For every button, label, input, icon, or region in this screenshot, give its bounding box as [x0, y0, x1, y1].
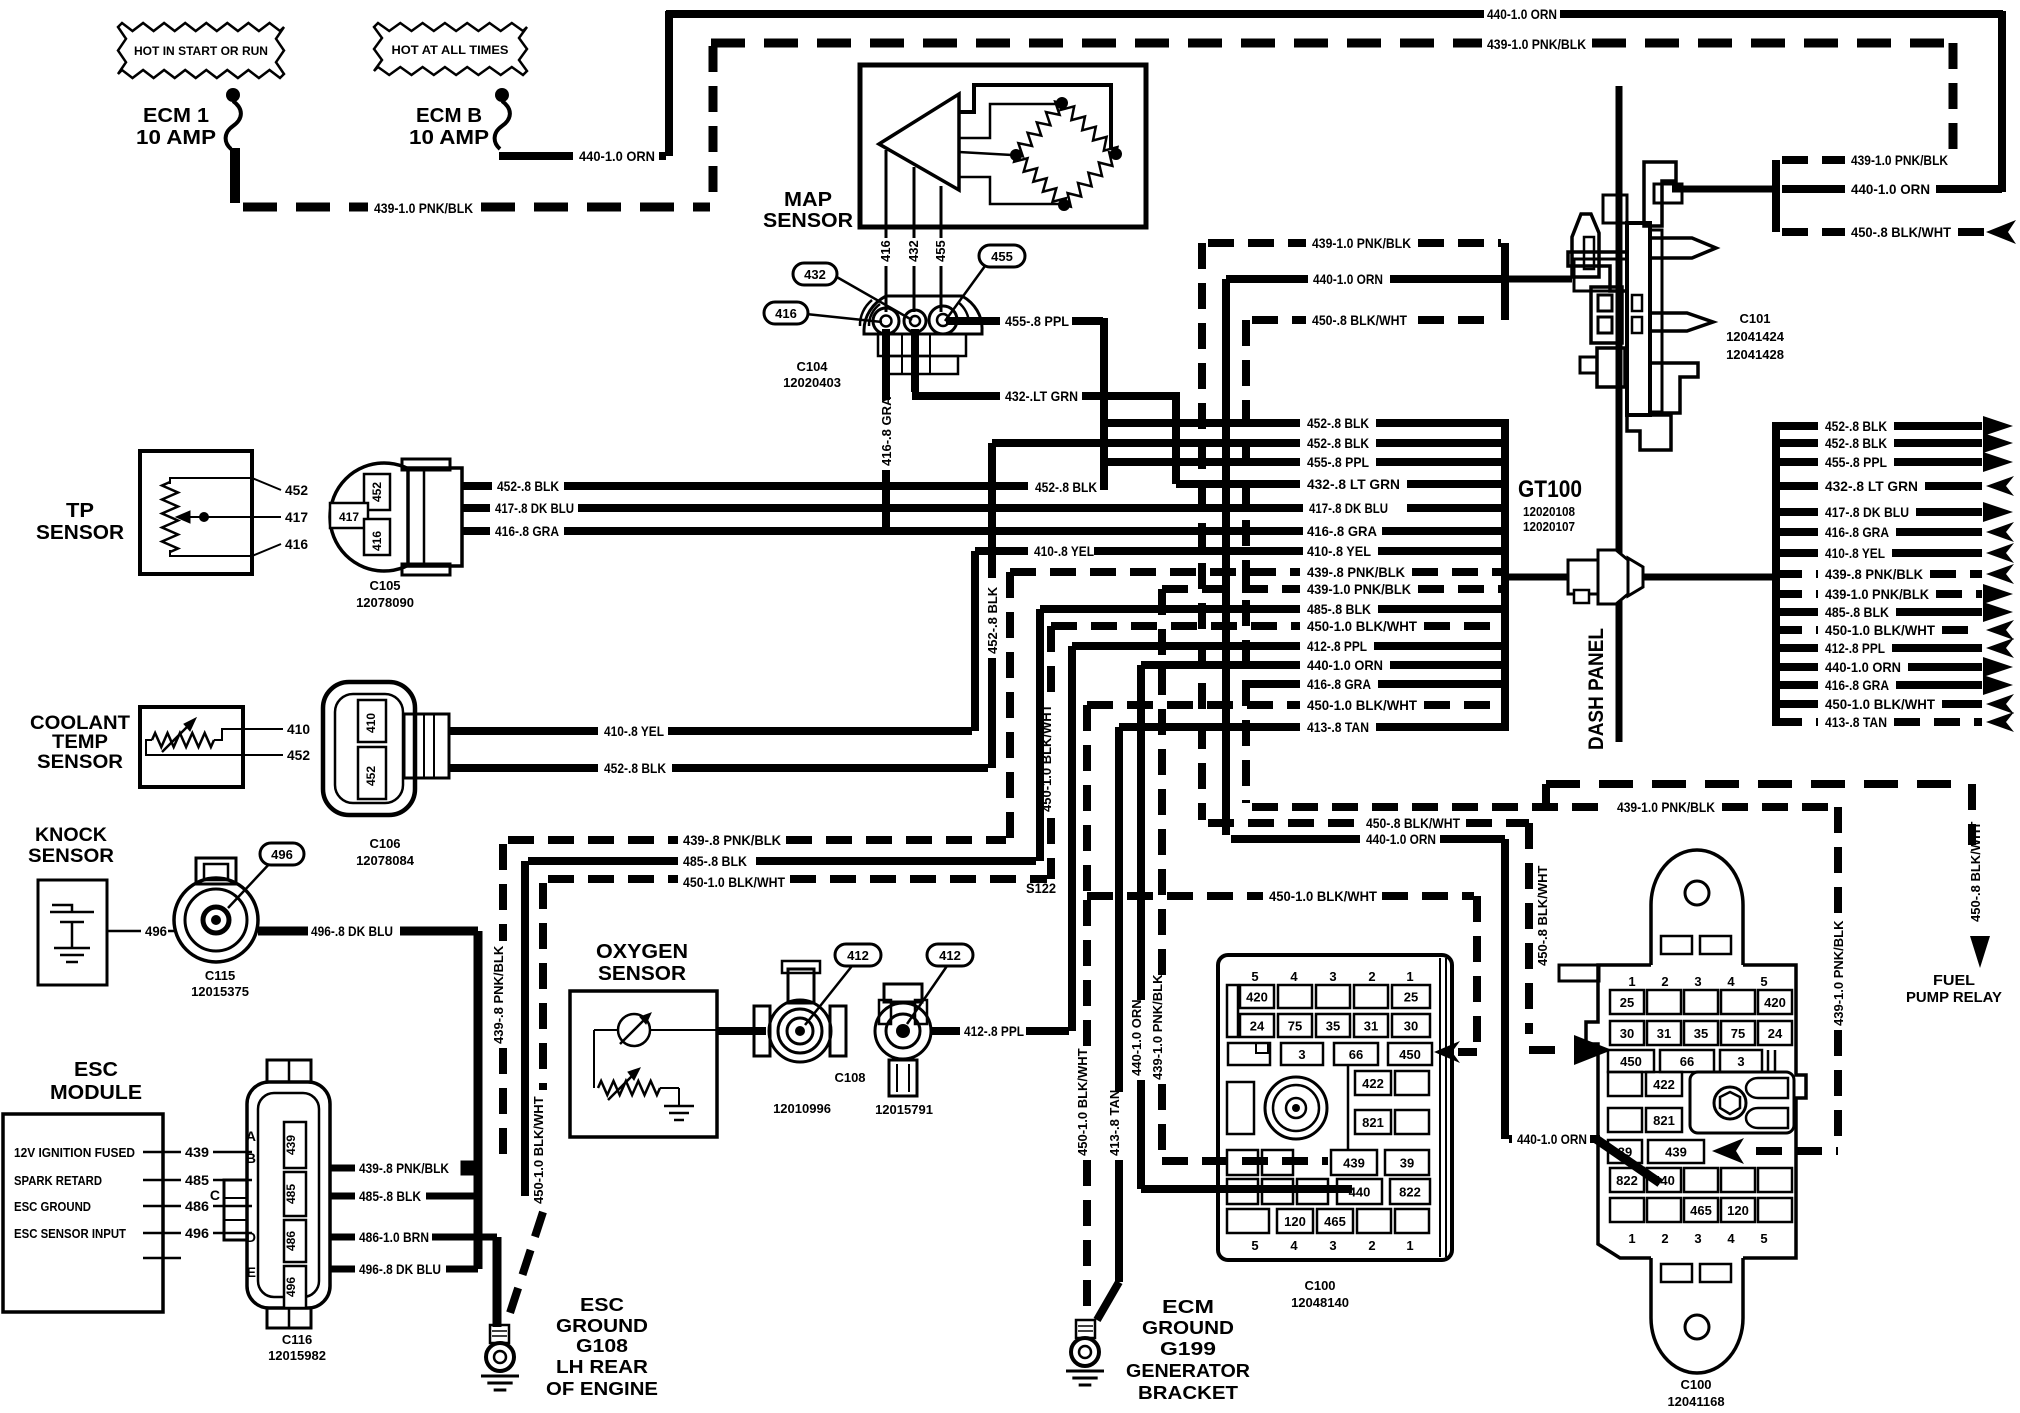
label 12041428	[1726, 347, 1784, 362]
wire 450-.8 drop to right fuse box (dashed)	[1529, 823, 1565, 1050]
svg-text:1: 1	[1628, 1231, 1635, 1246]
svg-text:1: 1	[1406, 1238, 1413, 1253]
svg-text:ESC: ESC	[74, 1059, 118, 1081]
svg-text:410: 410	[287, 721, 310, 737]
svg-text:439-.8 PNK/BLK: 439-.8 PNK/BLK	[1307, 564, 1405, 580]
svg-text:GROUND: GROUND	[556, 1316, 648, 1336]
svg-text:TEMP: TEMP	[52, 732, 108, 753]
terminal C116-485	[284, 1172, 306, 1216]
svg-text:ESC GROUND: ESC GROUND	[14, 1200, 91, 1214]
wire 439-1.0 drop to right fuse box (dashed)	[1756, 807, 1838, 1151]
label 450-.8 BLK/WHT (vertical)	[1535, 866, 1550, 966]
label C101	[1739, 311, 1770, 326]
svg-text:496: 496	[185, 1225, 209, 1241]
connector C108 body	[754, 961, 846, 1062]
svg-text:439-1.0 PNK/BLK: 439-1.0 PNK/BLK	[1851, 152, 1948, 168]
label DASH PANEL (vertical)	[1585, 628, 1608, 750]
fuse ECM B element	[495, 88, 510, 149]
wire 440-1.0 ORN top bus	[666, 10, 2003, 18]
label 455-.8 PPL	[1005, 313, 1069, 329]
node bridge bottom	[1058, 199, 1070, 211]
pin letter B	[246, 1150, 256, 1166]
label ECM B 10 AMP	[409, 105, 489, 149]
resistor bridge R4 (bottom-right)	[1064, 152, 1116, 206]
wire coolant 452 lead	[146, 740, 283, 755]
svg-text:G108: G108	[576, 1336, 628, 1356]
svg-text:452: 452	[364, 766, 378, 786]
svg-text:GENERATOR: GENERATOR	[1126, 1361, 1250, 1381]
wire right exit 416-.8 GRA y532	[1776, 522, 2014, 542]
svg-text:422: 422	[1362, 1076, 1384, 1091]
label 485-.8 BLK (ESC feed)	[683, 853, 747, 869]
svg-text:24: 24	[1768, 1026, 1783, 1041]
wire GT100 row 412-.8 PPL y646	[1072, 638, 1502, 654]
svg-text:39: 39	[1400, 1156, 1414, 1171]
svg-text:C100: C100	[1304, 1278, 1335, 1293]
fuse box F2 HOT AT ALL TIMES	[374, 23, 527, 75]
svg-text:4: 4	[1290, 969, 1298, 984]
label 12041168	[1667, 1394, 1724, 1409]
pin label 496 (knock)	[145, 923, 167, 939]
svg-text:440-1.0 ORN: 440-1.0 ORN	[1825, 659, 1901, 675]
callout oval 416 (C104)	[764, 302, 882, 324]
wire GT100 row 413-.8 TAN y727	[1119, 719, 1502, 735]
connector C116 body	[224, 1060, 330, 1328]
svg-text:450-1.0 BLK/WHT: 450-1.0 BLK/WHT	[1307, 618, 1417, 634]
label 412-.8 PPL	[964, 1023, 1024, 1039]
svg-text:SENSOR: SENSOR	[598, 963, 687, 985]
potentiometer (TP sensor)	[162, 482, 178, 552]
label 417-.8 DK BLU (near C105)	[495, 500, 574, 516]
wire 412 riser	[1068, 646, 1076, 1031]
svg-text:439-.8 PNK/BLK: 439-.8 PNK/BLK	[359, 1160, 449, 1176]
svg-text:439-.8 PNK/BLK: 439-.8 PNK/BLK	[683, 832, 781, 848]
wire 450-.8 BLK/WHT (C101 right, dashed)	[1782, 228, 1984, 236]
wire 439-.8 PNK/BLK (C116-B)	[330, 1160, 476, 1176]
wire 440-1.0 ORN run to fuse box	[1231, 835, 1505, 843]
svg-text:496: 496	[145, 923, 167, 939]
wire 485 vertical (to C116)	[521, 861, 529, 1196]
svg-text:12015375: 12015375	[191, 984, 249, 999]
svg-text:OF ENGINE: OF ENGINE	[546, 1379, 658, 1399]
svg-text:ESC SENSOR INPUT: ESC SENSOR INPUT	[14, 1227, 126, 1241]
pin C104-416	[873, 308, 899, 334]
thermistor (coolant sensor)	[152, 718, 214, 752]
svg-text:413-.8 TAN: 413-.8 TAN	[1307, 719, 1369, 735]
connector C115 body	[174, 858, 258, 962]
svg-text:413-.8 TAN: 413-.8 TAN	[1825, 714, 1887, 730]
arrow 450-.8 BLK/WHT entering	[1986, 220, 2016, 244]
fuse block C100 (12048140)	[1218, 955, 1452, 1260]
connector C109 body (12015791)	[875, 984, 931, 1096]
wire amp to bridge bottom node	[959, 177, 1060, 204]
svg-text:440-1.0 ORN: 440-1.0 ORN	[1129, 999, 1144, 1076]
svg-text:496: 496	[284, 1277, 298, 1297]
svg-text:120: 120	[1727, 1203, 1749, 1218]
svg-text:416: 416	[878, 240, 893, 262]
label 450-1.0 BLK/WHT (right)	[1269, 888, 1377, 904]
svg-text:450-1.0 BLK/WHT: 450-1.0 BLK/WHT	[1075, 1048, 1090, 1156]
terminal C105-417	[330, 503, 368, 528]
svg-text:439: 439	[1665, 1145, 1687, 1160]
svg-text:12048140: 12048140	[1291, 1295, 1349, 1310]
svg-text:12020107: 12020107	[1523, 519, 1575, 534]
wire 485-.8 BLK to ESC	[528, 857, 1036, 865]
svg-text:3: 3	[1694, 974, 1701, 989]
terminal C116-439	[284, 1122, 306, 1168]
svg-text:120: 120	[1284, 1214, 1306, 1229]
label 439-1.0 PNK/BLK (vertical right)	[1831, 920, 1846, 1026]
label TP SENSOR	[36, 500, 125, 544]
wire right exit 413-.8 TAN y722	[1776, 712, 2014, 732]
label C100 (right block)	[1680, 1377, 1711, 1392]
label ESC MODULE	[50, 1059, 142, 1104]
wire 440-1.0 ORN vertical (to left fuse box)	[1141, 665, 1352, 1189]
pin label 416 (MAP)	[878, 240, 893, 262]
svg-text:822: 822	[1616, 1173, 1638, 1188]
terminal C105-416	[364, 519, 390, 555]
wire 450-.8 riser (dashed)	[1242, 320, 1250, 803]
svg-text:416: 416	[370, 531, 384, 551]
wire 440-1.0 ORN (C101 right)	[1672, 186, 2002, 193]
svg-text:75: 75	[1731, 1026, 1745, 1041]
wire 439-1.0 riser (dashed)	[1198, 243, 1206, 820]
label 452-.8 BLK (mid)	[1035, 479, 1097, 495]
svg-text:440-1.0 ORN: 440-1.0 ORN	[1851, 181, 1930, 197]
svg-text:452: 452	[370, 482, 384, 502]
svg-text:SPARK RETARD: SPARK RETARD	[14, 1174, 102, 1188]
svg-text:SENSOR: SENSOR	[37, 752, 123, 773]
label 439-1.0 PNK/BLK (C101 right)	[1851, 152, 1948, 168]
wire 410-.8 YEL from C106	[449, 727, 972, 735]
svg-text:75: 75	[1288, 1019, 1302, 1034]
wire 440 right drop	[1998, 11, 2006, 192]
ground terminal G108	[481, 1325, 519, 1390]
svg-text:821: 821	[1653, 1113, 1675, 1128]
svg-text:420: 420	[1246, 990, 1268, 1005]
svg-text:417-.8 DK BLU: 417-.8 DK BLU	[1825, 504, 1909, 520]
wire 496 knock lead	[107, 930, 176, 933]
svg-text:A: A	[246, 1128, 256, 1144]
svg-text:821: 821	[1362, 1115, 1384, 1130]
wire GT100 row 439-.8 PNK/BLK y572	[1010, 564, 1502, 580]
wire right exit 439-1.0 PNK/BLK y594	[1776, 584, 2013, 604]
svg-text:12020403: 12020403	[783, 375, 841, 390]
svg-text:450-.8 BLK/WHT: 450-.8 BLK/WHT	[1968, 822, 1983, 922]
wire 440-1.0 drop	[1501, 839, 1509, 1139]
svg-text:12015791: 12015791	[875, 1102, 933, 1117]
wire 452 riser to row1	[1100, 419, 1108, 486]
svg-text:450-1.0 BLK/WHT: 450-1.0 BLK/WHT	[1825, 622, 1935, 638]
svg-text:C108: C108	[834, 1070, 865, 1085]
svg-text:417-.8 DK BLU: 417-.8 DK BLU	[1309, 500, 1388, 516]
wire coolant 410 lead	[214, 729, 283, 740]
arrow into 450 fuse (left box)	[1434, 1041, 1460, 1063]
svg-text:410-.8 YEL: 410-.8 YEL	[1825, 545, 1885, 561]
label 440-1.0 ORN (top bus)	[1487, 6, 1557, 22]
wire 455-.8 PPL from C104	[946, 317, 1103, 325]
GT100 left bus	[1501, 419, 1509, 731]
wire right exit 440-1.0 ORN y667	[1776, 657, 2013, 677]
label 12020107	[1523, 519, 1575, 534]
wire 450-1.0 BLK/WHT (S122 run, dashed)	[1087, 892, 1474, 900]
ESC row SPARK RETARD	[14, 1172, 252, 1188]
wire right exit 416-.8 GRA y685	[1776, 675, 2013, 695]
terminal C106-410	[358, 700, 386, 742]
oxygen sensor meter symbol	[594, 1013, 717, 1088]
wire 485-.8 BLK (C116-C)	[330, 1188, 480, 1204]
svg-text:FUEL: FUEL	[1933, 972, 1975, 989]
svg-text:455: 455	[991, 249, 1013, 264]
svg-text:12V IGNITION FUSED: 12V IGNITION FUSED	[14, 1146, 135, 1160]
callout oval 412 (C109)	[907, 944, 973, 1024]
label 413-.8 TAN (vertical)	[1107, 1090, 1122, 1156]
svg-text:12010996: 12010996	[773, 1101, 831, 1116]
svg-text:432: 432	[906, 240, 921, 262]
svg-text:10 AMP: 10 AMP	[136, 127, 216, 149]
svg-text:452-.8 BLK: 452-.8 BLK	[497, 478, 559, 494]
terminal C116-486	[284, 1220, 306, 1262]
svg-text:3: 3	[1737, 1054, 1744, 1069]
svg-text:12041168: 12041168	[1667, 1394, 1724, 1408]
wire right exit 410-.8 YEL y553	[1776, 543, 2014, 563]
label 450-1.0 BLK/WHT (left)	[683, 874, 785, 890]
fuse block C100 (12041168)	[1559, 850, 1806, 1373]
label 12041424	[1726, 329, 1785, 344]
label 496-.8 DK BLU	[311, 923, 393, 939]
label 452-.8 BLK (near C105)	[497, 478, 559, 494]
svg-text:422: 422	[1653, 1077, 1675, 1092]
right exit bus	[1772, 422, 1780, 726]
svg-text:440-1.0 ORN: 440-1.0 ORN	[579, 148, 655, 164]
label 439-1.0 PNK/BLK (lower run)	[1617, 799, 1715, 815]
node bridge top	[1056, 97, 1068, 109]
svg-text:485: 485	[185, 1172, 209, 1188]
label 12020108	[1523, 504, 1575, 519]
svg-text:MAP: MAP	[784, 189, 832, 211]
svg-text:440: 440	[1653, 1173, 1675, 1188]
svg-text:450-.8 BLK/WHT: 450-.8 BLK/WHT	[1366, 815, 1460, 831]
svg-text:455-.8 PPL: 455-.8 PPL	[1825, 454, 1887, 470]
svg-text:3: 3	[1298, 1047, 1305, 1062]
svg-text:S122: S122	[1026, 880, 1056, 896]
svg-text:439-1.0 PNK/BLK: 439-1.0 PNK/BLK	[1150, 974, 1165, 1080]
label OXYGEN SENSOR	[596, 941, 688, 985]
label 417-.8 DK BLU (GT100)	[1309, 500, 1388, 516]
svg-text:2: 2	[1368, 1238, 1375, 1253]
label C115 12015375	[191, 968, 249, 999]
svg-text:439: 439	[185, 1144, 209, 1160]
svg-text:SENSOR: SENSOR	[36, 522, 125, 544]
wire 440 vertical riser	[665, 11, 673, 156]
svg-text:416: 416	[285, 536, 308, 552]
label ECM GROUND G199 GENERATOR BRACKET	[1126, 1297, 1250, 1403]
wire right exit 412-.8 PPL y648	[1776, 638, 2014, 658]
svg-text:4: 4	[1727, 974, 1735, 989]
node bridge left	[1010, 149, 1022, 161]
wire 432 drop to GT100 row	[1172, 392, 1180, 484]
bulkhead connector (dash panel)	[1568, 550, 1643, 604]
wire 410 riser	[971, 551, 979, 731]
svg-text:485-.8 BLK: 485-.8 BLK	[359, 1188, 421, 1204]
svg-text:452-.8 BLK: 452-.8 BLK	[1307, 415, 1369, 431]
label 12015791	[875, 1102, 933, 1117]
svg-text:HOT IN START OR RUN: HOT IN START OR RUN	[134, 44, 268, 58]
label GT100	[1518, 476, 1582, 503]
pin letter D	[246, 1229, 256, 1245]
label 440-1.0 ORN (mid run)	[1366, 831, 1436, 847]
wire 450-.8 BLK/WHT drop to fuel pump relay (dashed)	[1968, 784, 1976, 845]
wire 432 drop from C104 pin	[911, 329, 919, 392]
connector C104 body	[860, 296, 982, 374]
svg-text:410-.8 YEL: 410-.8 YEL	[1307, 543, 1371, 559]
svg-text:439-1.0 PNK/BLK: 439-1.0 PNK/BLK	[1307, 581, 1411, 597]
label 452-.8 BLK (vertical)	[985, 586, 1000, 654]
svg-text:30: 30	[1620, 1026, 1634, 1041]
terminal C116-496	[284, 1266, 306, 1308]
svg-text:455-.8 PPL: 455-.8 PPL	[1005, 313, 1069, 329]
pin label 432 (MAP)	[906, 240, 921, 262]
svg-text:485-.8 BLK: 485-.8 BLK	[683, 853, 747, 869]
wire right exit 432-.8 LT GRN y486	[1776, 476, 2014, 496]
wire 439-1.0 PNK/BLK lower dashed run	[1252, 803, 1832, 811]
resistor bridge R2 (top-right)	[1061, 103, 1118, 154]
svg-text:486: 486	[185, 1198, 209, 1214]
label ESC GROUND G108 LH REAR OF ENGINE	[546, 1295, 658, 1399]
svg-text:439-1.0 PNK/BLK: 439-1.0 PNK/BLK	[1487, 36, 1586, 52]
svg-text:450: 450	[1620, 1054, 1642, 1069]
svg-text:465: 465	[1324, 1214, 1346, 1229]
svg-text:C101: C101	[1739, 311, 1770, 326]
oxygen sensor box	[570, 991, 717, 1137]
svg-text:452-.8 BLK: 452-.8 BLK	[1825, 435, 1887, 451]
svg-text:412-.8 PPL: 412-.8 PPL	[1825, 640, 1885, 656]
svg-text:440-1.0 ORN: 440-1.0 ORN	[1487, 6, 1557, 22]
svg-text:C: C	[210, 1187, 220, 1203]
label 416-.8 GRA (GT100)	[1307, 523, 1377, 539]
svg-text:12041428: 12041428	[1726, 347, 1784, 362]
label 439-.8 PNK/BLK (ESC feed)	[683, 832, 781, 848]
ESC row ESC SENSOR INPUT	[14, 1225, 252, 1241]
svg-text:1: 1	[1406, 969, 1413, 984]
svg-text:486: 486	[284, 1231, 298, 1251]
label 440-1.0 ORN (at fuse box)	[1517, 1131, 1587, 1147]
svg-text:450: 450	[1399, 1047, 1421, 1062]
wire 439-1.0 PNK/BLK top dashed bus	[711, 39, 1951, 48]
label 410-.8 YEL (mid)	[1034, 543, 1094, 559]
wire 485 riser at GT100	[1036, 609, 1044, 861]
wire amp to bridge top rail	[959, 85, 1111, 150]
svg-text:C104: C104	[796, 359, 828, 374]
svg-text:410-.8 YEL: 410-.8 YEL	[1034, 543, 1094, 559]
svg-text:452-.8 BLK: 452-.8 BLK	[1307, 435, 1369, 451]
wire 496-.8 DK BLU (C116-E)	[330, 1256, 478, 1277]
wire 413-.8 TAN vertical	[1097, 727, 1119, 1320]
svg-text:439-.8 PNK/BLK: 439-.8 PNK/BLK	[491, 945, 506, 1044]
svg-text:TP: TP	[66, 500, 94, 522]
svg-text:31: 31	[1364, 1019, 1378, 1034]
svg-text:439-1.0 PNK/BLK: 439-1.0 PNK/BLK	[374, 200, 473, 216]
svg-text:450-.8 BLK/WHT: 450-.8 BLK/WHT	[1312, 312, 1407, 328]
svg-text:ECM: ECM	[1162, 1297, 1214, 1317]
svg-text:5: 5	[1760, 1231, 1767, 1246]
svg-text:C106: C106	[369, 836, 400, 851]
svg-text:D: D	[246, 1229, 256, 1245]
svg-text:410: 410	[364, 713, 378, 733]
svg-text:416-.8 GRA: 416-.8 GRA	[1307, 523, 1377, 539]
wire GT100 row 439-1.0 PNK/BLK y589	[1162, 581, 1502, 597]
label 12010996	[773, 1101, 831, 1116]
terminal C106-452	[358, 747, 386, 799]
label 439-1.0 PNK/BLK (vertical)	[1150, 974, 1165, 1080]
label 439-1.0 PNK/BLK (C101 left)	[1312, 235, 1411, 251]
fuse box F1 HOT IN START OR RUN	[118, 23, 284, 78]
svg-text:25: 25	[1404, 990, 1418, 1005]
wire GT100 row 432-.8 LT GRN y484	[1176, 476, 1502, 492]
wire GT100 row 485-.8 BLK y609	[1040, 601, 1502, 617]
svg-text:439: 439	[284, 1135, 298, 1155]
svg-text:DASH PANEL: DASH PANEL	[1585, 628, 1608, 750]
arrow to fuel pump relay	[1970, 936, 1990, 968]
wire GT100 row 452-.8 BLK y423	[1104, 415, 1502, 431]
label COOLANT TEMP SENSOR	[30, 713, 130, 773]
wire oxygen sensor to C108	[717, 1027, 766, 1035]
svg-text:452: 452	[285, 482, 308, 498]
label 450-.8 BLK/WHT (C101 right)	[1851, 224, 1951, 240]
label 439-1.0 PNK/BLK (fuse output)	[374, 200, 473, 216]
svg-text:C100: C100	[1680, 1377, 1711, 1392]
svg-text:ECM B: ECM B	[416, 105, 482, 127]
svg-text:439-.8 PNK/BLK: 439-.8 PNK/BLK	[1825, 566, 1923, 582]
wire 450-.8 BLK/WHT (C101 left, dashed)	[1252, 316, 1498, 324]
wire 450-.8 BLK/WHT mid dashed run	[1208, 819, 1529, 827]
svg-text:39: 39	[1618, 1145, 1632, 1160]
svg-text:420: 420	[1764, 995, 1786, 1010]
label C108	[834, 1070, 865, 1085]
svg-text:OXYGEN: OXYGEN	[596, 941, 688, 963]
svg-text:3: 3	[1694, 1231, 1701, 1246]
wire 440-1.0 into right fuse box	[1509, 1139, 1660, 1183]
wire 452 riser (coolant)	[988, 443, 996, 768]
svg-text:12041424: 12041424	[1726, 329, 1785, 344]
svg-text:4: 4	[1727, 1231, 1735, 1246]
svg-text:KNOCK: KNOCK	[35, 825, 107, 846]
label 416-.8 GRA (vertical)	[879, 396, 894, 466]
svg-text:GROUND: GROUND	[1142, 1318, 1234, 1338]
svg-text:1: 1	[1628, 974, 1635, 989]
pin letter A	[246, 1128, 256, 1144]
svg-text:25: 25	[1620, 995, 1634, 1010]
svg-text:35: 35	[1326, 1019, 1340, 1034]
wire right exit 485-.8 BLK y612	[1776, 602, 2013, 622]
svg-text:432: 432	[804, 267, 826, 282]
svg-text:412-.8 PPL: 412-.8 PPL	[964, 1023, 1024, 1039]
wire right exit 455-.8 PPL y462	[1776, 452, 2013, 472]
svg-text:ECM 1: ECM 1	[143, 105, 209, 127]
wire 416-.8 GRA drop from C104	[882, 329, 890, 532]
C101 right bracket	[1772, 160, 1780, 232]
wire MAP pin 432 lead	[913, 167, 916, 312]
svg-text:3: 3	[1329, 969, 1336, 984]
ESC row spare	[143, 1257, 181, 1260]
label 410-.8 YEL (near C106)	[604, 723, 664, 739]
svg-text:450-1.0 BLK/WHT: 450-1.0 BLK/WHT	[1825, 696, 1935, 712]
label C105 12078090	[356, 578, 414, 610]
svg-text:412: 412	[847, 948, 869, 963]
svg-text:450-.8 BLK/WHT: 450-.8 BLK/WHT	[1851, 224, 1951, 240]
svg-text:HOT AT ALL TIMES: HOT AT ALL TIMES	[392, 43, 509, 57]
pin label 452 (coolant)	[287, 747, 310, 763]
